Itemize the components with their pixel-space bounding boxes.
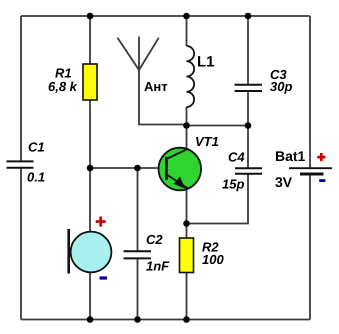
wire top rail <box>21 15 310 17</box>
svg-text:C4: C4 <box>228 150 245 165</box>
wire microphone to bottom rail <box>89 273 91 320</box>
svg-text:Bat1: Bat1 <box>275 148 306 164</box>
junction node top C3 <box>245 13 252 20</box>
svg-text:C1: C1 <box>28 140 45 155</box>
wire L1 top <box>186 16 188 46</box>
wire C3 to node <box>247 92 249 126</box>
capacitor C3 <box>235 85 263 91</box>
junction node collector <box>183 122 190 129</box>
capacitor C2 <box>124 251 152 258</box>
svg-text:3V: 3V <box>275 174 293 190</box>
wire bottom rail <box>21 319 310 321</box>
junction node emitter <box>183 220 190 227</box>
svg-text:30p: 30p <box>270 79 292 94</box>
microphone <box>69 217 112 280</box>
junction node top L1 <box>183 13 190 20</box>
wire node down to C4 <box>247 126 249 168</box>
capacitor C4 <box>235 168 262 174</box>
wire C2 branch upper <box>137 168 139 251</box>
svg-text:C2: C2 <box>146 232 163 247</box>
wire L1 bottom to node <box>186 107 188 126</box>
junction node bottom R2 <box>183 316 190 323</box>
svg-text:1nF: 1nF <box>146 259 170 274</box>
capacitor C1 <box>7 161 34 167</box>
junction node C3/C4 <box>245 122 252 129</box>
wire right upper (to Bat1) <box>309 16 311 168</box>
svg-text:100: 100 <box>202 252 224 267</box>
antenna <box>118 37 159 71</box>
battery Bat1 <box>275 148 332 190</box>
junction node top R1 <box>87 13 94 20</box>
wire VT1 collector <box>186 126 188 149</box>
svg-text:VT1: VT1 <box>195 134 219 149</box>
wire R1 to microphone <box>89 100 91 232</box>
junction node bottom mic <box>87 316 94 323</box>
wire antenna mast down and over to node <box>139 70 187 125</box>
svg-text:L1: L1 <box>197 54 215 71</box>
svg-text:6,8 k: 6,8 k <box>48 79 78 94</box>
wire C3 branch top <box>247 16 249 84</box>
wire right lower (from Bat1) <box>309 174 311 320</box>
resistor R1 <box>48 64 97 100</box>
junction node bottom C2 <box>134 316 141 323</box>
junction node base left <box>87 165 94 172</box>
wire R2 to bottom rail <box>186 273 188 320</box>
wire base (R1 node to VT1 base) <box>90 167 167 169</box>
svg-text:Ант: Ант <box>144 79 168 94</box>
svg-text:0.1: 0.1 <box>27 170 45 185</box>
wire left upper (to C1) <box>20 16 22 161</box>
wire C4 bottom to emitter node <box>187 174 249 224</box>
wire C2 branch lower <box>137 259 139 320</box>
junction node base C2 <box>134 165 141 172</box>
transistor VT1 <box>159 134 219 190</box>
wire VT1 emitter to R2 <box>186 190 188 239</box>
wire node to C3/C4 node <box>187 125 249 127</box>
resistor R2 <box>180 238 225 273</box>
wire left lower (from C1 to bottom) <box>20 168 22 320</box>
inductor L1 <box>187 46 195 107</box>
wire R1 branch top <box>89 16 91 64</box>
svg-text:15p: 15p <box>222 177 244 192</box>
